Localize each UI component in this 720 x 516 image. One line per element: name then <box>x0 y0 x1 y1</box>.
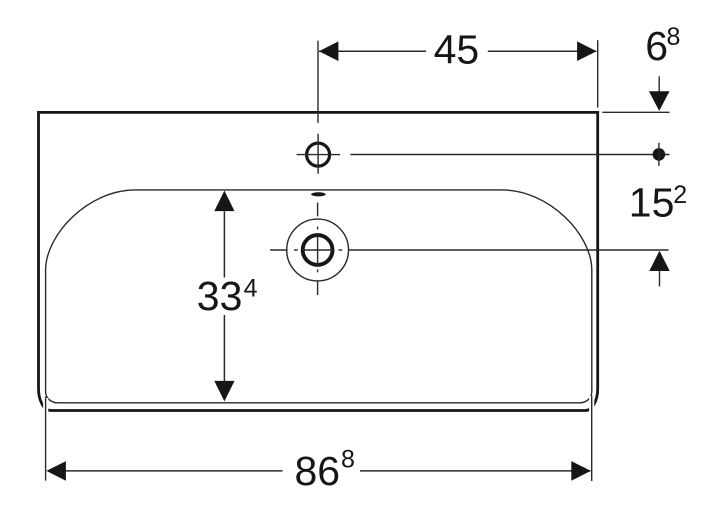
faucet hole vertical centerline <box>317 134 319 174</box>
dimension line 33.4 <box>223 211 225 277</box>
faucet hole circle <box>307 143 330 166</box>
reference line top right (6.8) <box>602 111 669 113</box>
extension line left (45) <box>317 41 319 123</box>
arrow down (6.8) <box>658 76 660 92</box>
arrow right of 86.8 <box>571 461 591 481</box>
extension line right (45) <box>597 40 599 107</box>
svg-text:2: 2 <box>673 181 687 209</box>
extension line right (86.8) <box>591 396 593 481</box>
reference line from faucet hole to dot <box>350 154 669 156</box>
svg-text:8: 8 <box>667 23 681 51</box>
arrow left of 86.8 <box>46 461 66 481</box>
white halo where left extension line crosses outline <box>43 398 48 414</box>
svg-text:6: 6 <box>645 23 668 69</box>
arrow left of 45 <box>319 41 339 61</box>
overflow slot <box>311 192 326 196</box>
dimension line 86.8 <box>48 470 283 472</box>
dimension line 45 <box>319 50 426 52</box>
drain vertical centerline <box>317 203 319 296</box>
svg-text:8: 8 <box>341 446 355 474</box>
extension line left (86.8) <box>45 397 47 481</box>
svg-text:45: 45 <box>434 26 480 72</box>
svg-text:15: 15 <box>629 180 675 226</box>
white halo where right extension line crosses outline <box>589 396 594 414</box>
arrow up (15.2) <box>649 251 669 271</box>
drain outer circle <box>287 219 349 281</box>
basin inner outline <box>46 190 592 403</box>
arrow up of 33.4 <box>214 191 234 212</box>
reference dot on faucet line <box>653 148 666 161</box>
svg-text:86: 86 <box>295 448 341 494</box>
arrow down of 33.4 <box>214 381 234 402</box>
arrow right of 45 <box>577 41 597 61</box>
svg-text:4: 4 <box>244 274 258 302</box>
svg-text:33: 33 <box>197 273 243 319</box>
faucet hole horizontal centerline <box>297 154 341 156</box>
washbasin outer outline <box>39 112 598 410</box>
drain inner circle <box>303 235 333 265</box>
drain horizontal centerline <box>270 249 668 251</box>
